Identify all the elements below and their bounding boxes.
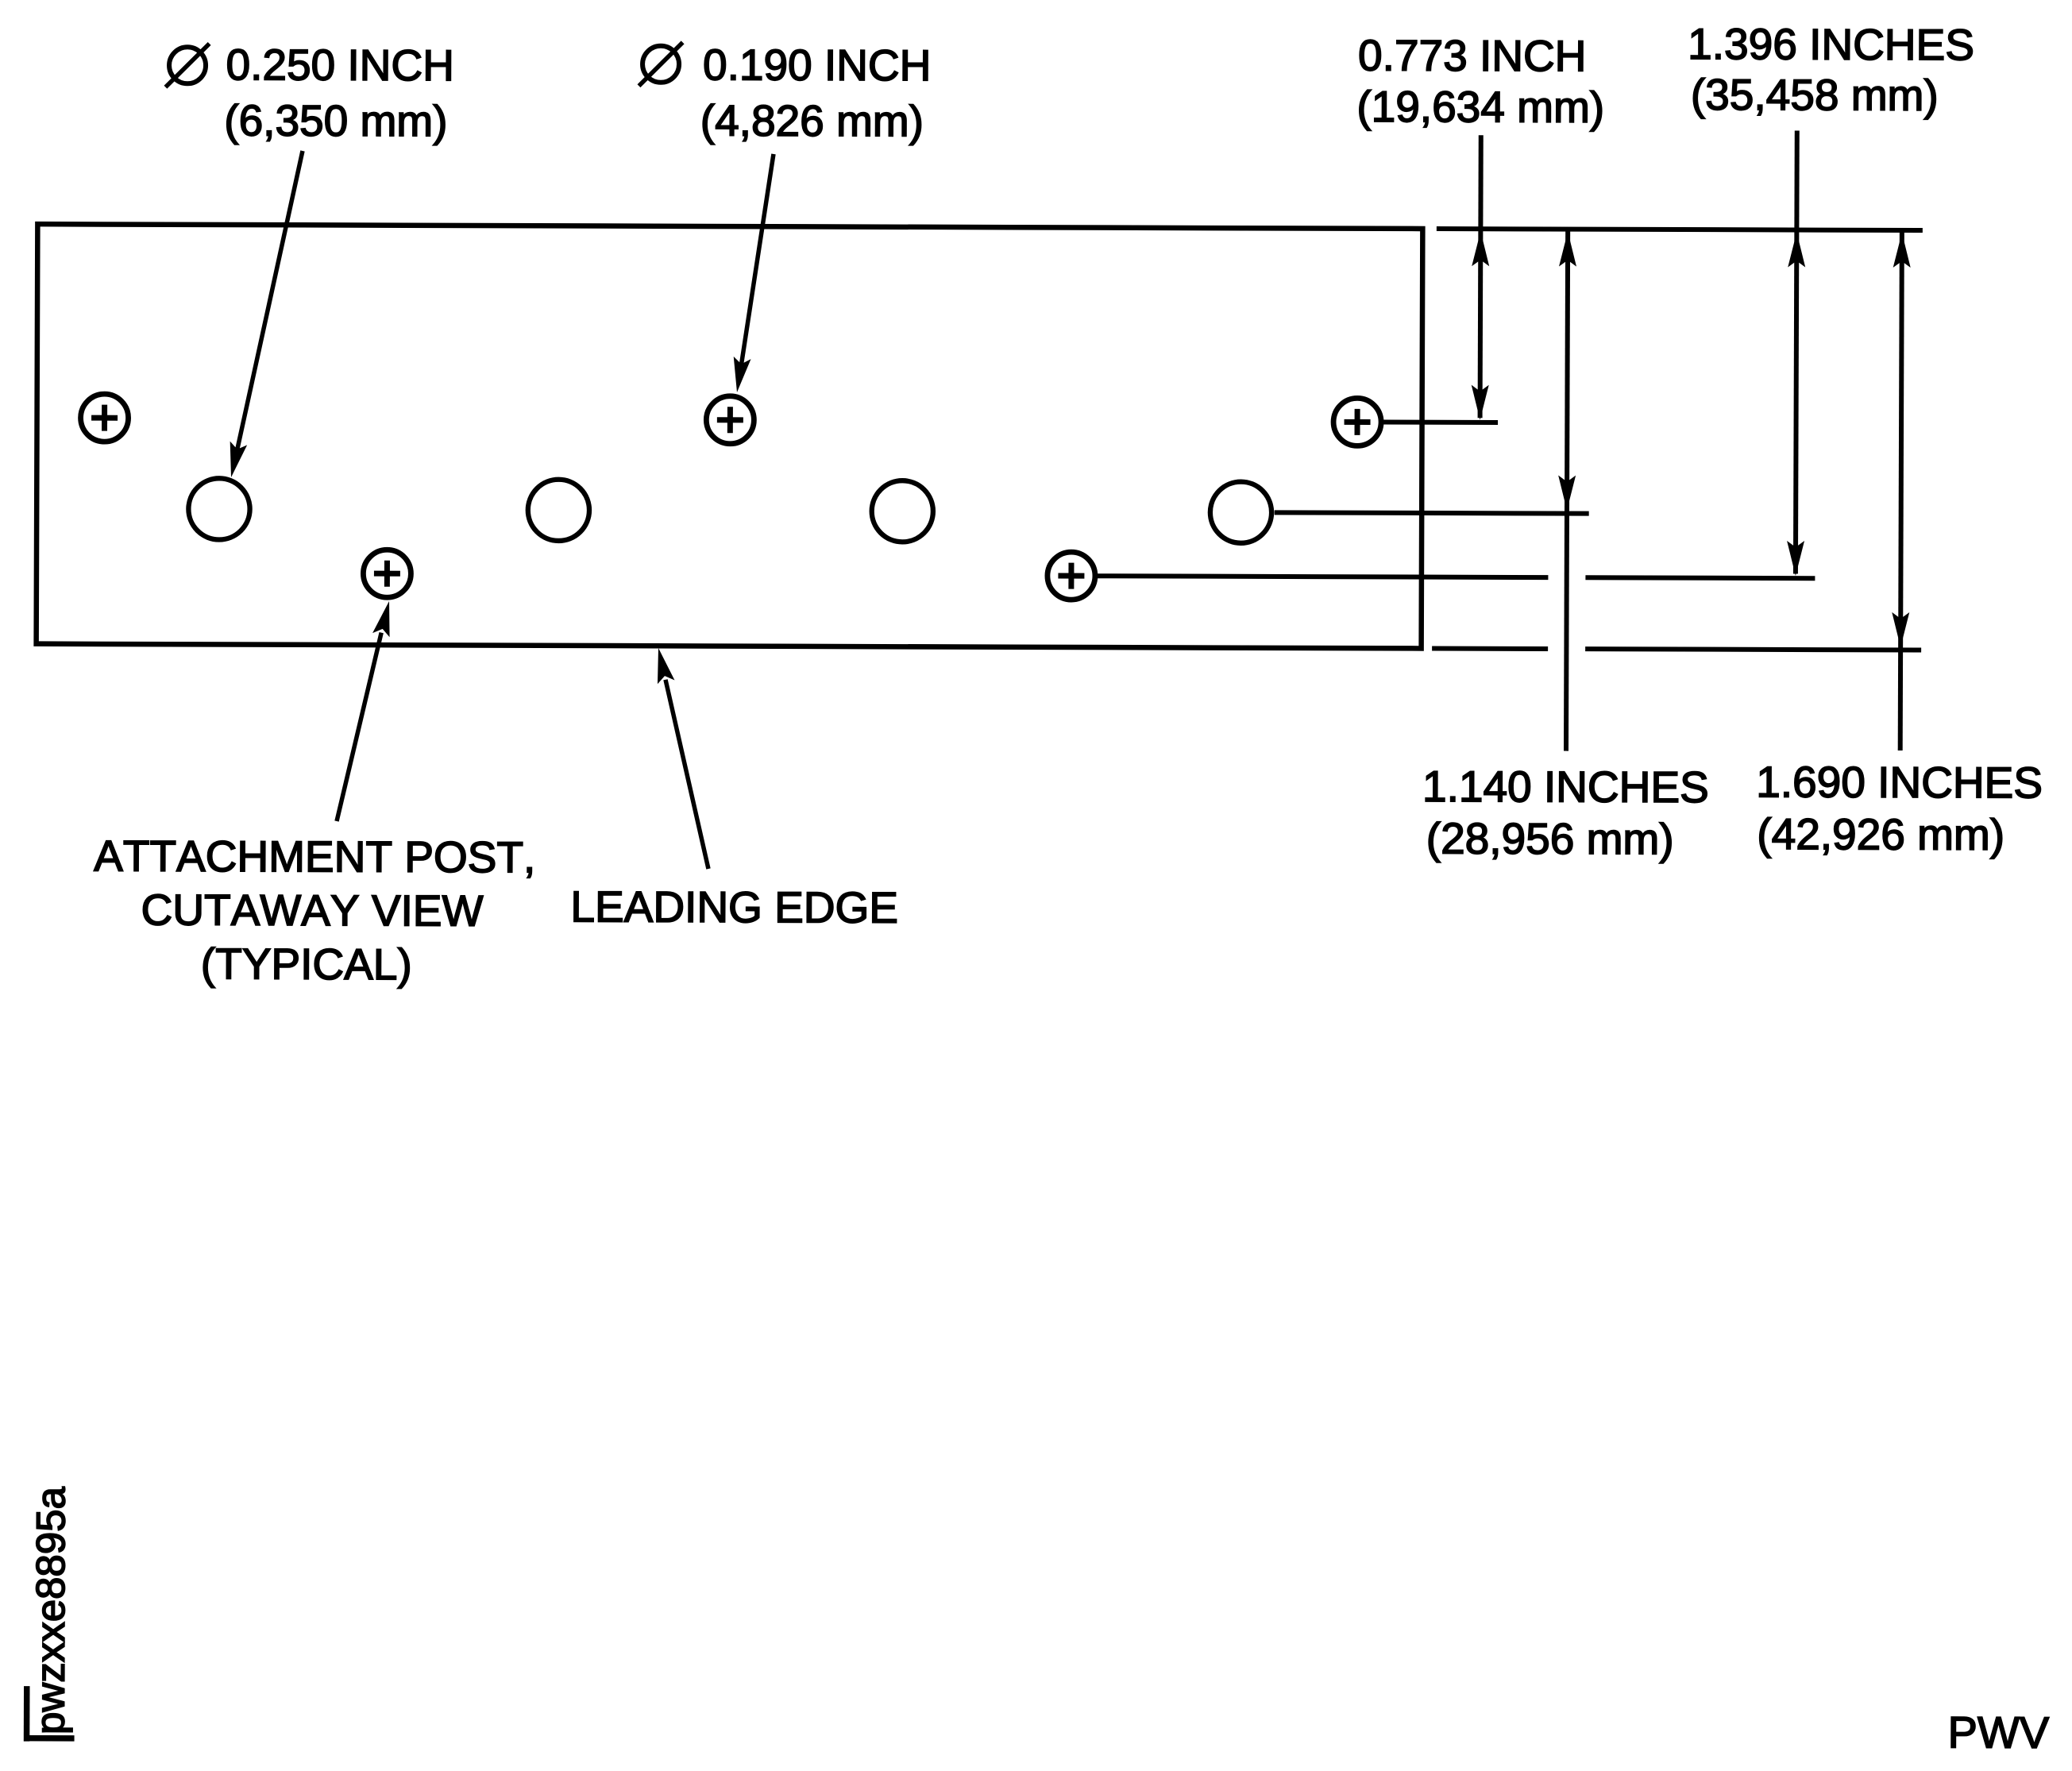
svg-text:(TYPICAL): (TYPICAL) (201, 939, 412, 989)
attachment post post 5 (circle with cross) (1333, 398, 1381, 446)
leader arrow leading edge label to bottom edge (657, 648, 709, 869)
attachment post post 1 (circle with cross) (80, 394, 128, 442)
svg-text:LEADING EDGE: LEADING EDGE (570, 882, 898, 932)
svg-text:ATTACHMENT POST,: ATTACHMENT POST, (94, 831, 535, 882)
svg-text:1.140 INCHES: 1.140 INCHES (1422, 762, 1709, 812)
bottom edge extension line (segment 2) (1585, 649, 1921, 650)
hole 1 0.250 inch (188, 478, 249, 539)
attachment post post 4 (circle with cross) (1048, 552, 1095, 600)
svg-text:(28,956 mm): (28,956 mm) (1426, 813, 1674, 863)
bottom edge extension line (segment 1) (1432, 646, 1548, 651)
dimension line 0.773 inch (1472, 135, 1490, 420)
dimension line 1.140 inches (1557, 230, 1576, 751)
svg-text:(6,350 mm): (6,350 mm) (224, 95, 447, 145)
figure id bracket (24, 1686, 75, 1742)
hole 2 0.250 inch (528, 480, 589, 541)
svg-text:(4,826 mm): (4,826 mm) (700, 96, 924, 146)
leading edge strip outline (37, 224, 1423, 648)
post 4 center extension line (segment 2) (1585, 575, 1815, 581)
attachment post post 2 (circle with cross) (363, 550, 411, 597)
top edge extension line (1437, 229, 1923, 230)
leader arrow attachment post label to post 2 (337, 601, 390, 822)
svg-text:(42,926 mm): (42,926 mm) (1757, 809, 2004, 859)
svg-text:pwzxxe8895a: pwzxxe8895a (27, 1486, 73, 1734)
svg-text:1.690 INCHES: 1.690 INCHES (1756, 757, 2043, 807)
diameter symbol for 0.250 inch (165, 44, 209, 87)
svg-text:(19,634 mm): (19,634 mm) (1356, 82, 1604, 132)
svg-text:CUTAWAY VIEW: CUTAWAY VIEW (141, 885, 483, 935)
post 4 center extension line (segment 1) (1098, 576, 1548, 577)
hole 3 0.250 inch (872, 480, 933, 542)
svg-text:0.250 INCH: 0.250 INCH (226, 40, 454, 90)
hole 4 center extension line (1275, 512, 1589, 513)
attachment post post 3 (circle with cross) (706, 396, 754, 444)
svg-text:1.396 INCHES: 1.396 INCHES (1688, 19, 1974, 69)
svg-text:(35,458 mm): (35,458 mm) (1691, 70, 1939, 120)
svg-text:0.773 INCH: 0.773 INCH (1358, 30, 1587, 80)
post 5 center extension line (1383, 419, 1498, 424)
leader arrow 0.250 inch label to hole 1 (230, 151, 303, 478)
svg-text:0.190 INCH: 0.190 INCH (703, 40, 932, 90)
dimension line 1.396 inches (1787, 130, 1806, 576)
leader arrow 0.190 inch label to post 3 (734, 154, 774, 392)
dimension line 1.690 inches (1892, 230, 1911, 750)
diameter symbol for 0.190 inch (639, 42, 682, 86)
hole 4 0.250 inch (1210, 481, 1271, 542)
svg-text:PWV: PWV (1947, 1707, 2049, 1757)
